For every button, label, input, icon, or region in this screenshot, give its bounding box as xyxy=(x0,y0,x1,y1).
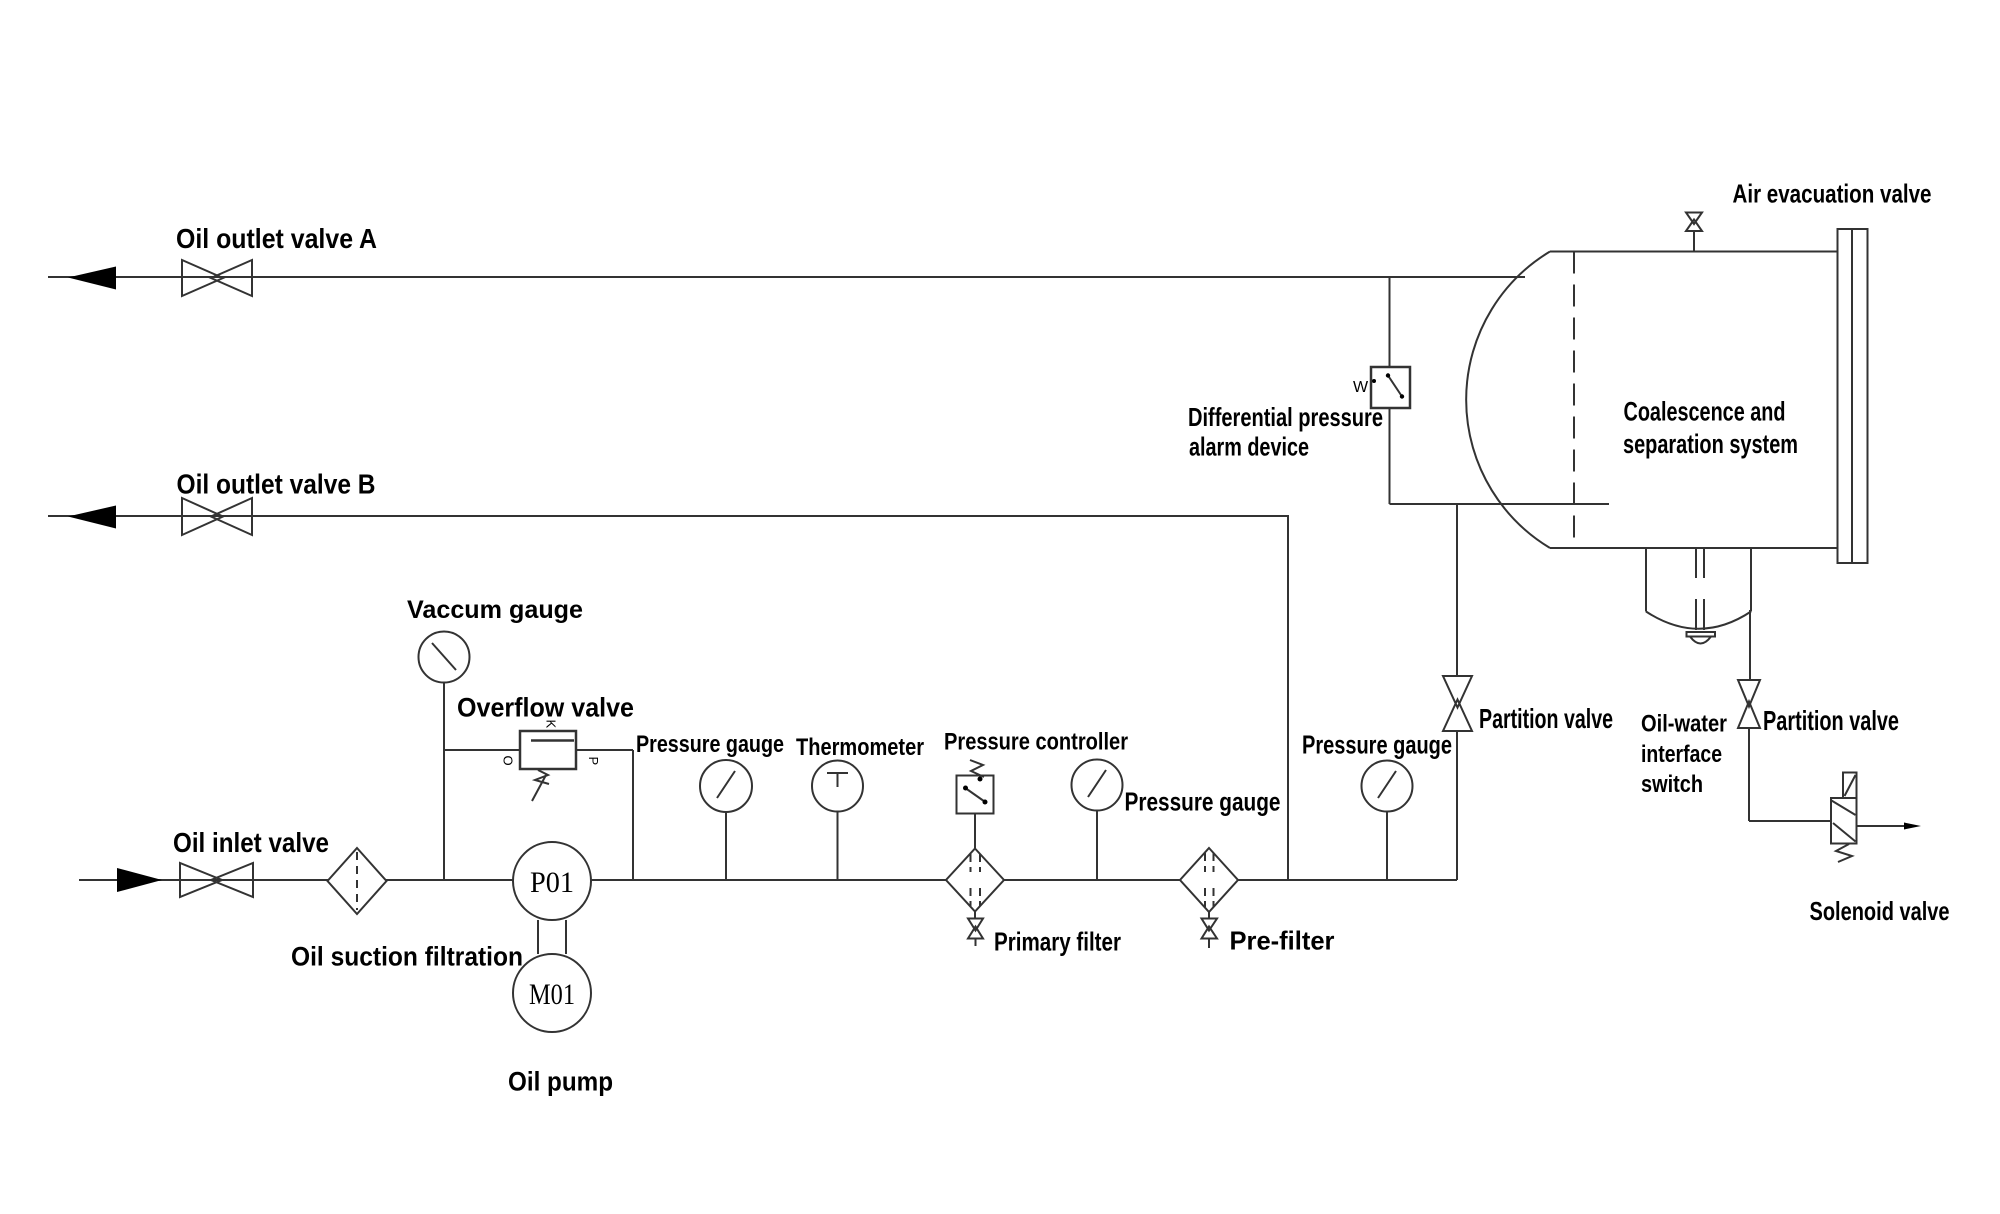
valve: oil outlet valve B xyxy=(182,498,252,535)
valve: overflow valve xyxy=(501,720,602,802)
svg-text:O: O xyxy=(501,756,516,766)
instrument: differential pressure alarm device xyxy=(1353,367,1410,408)
flow arrow A xyxy=(68,267,116,290)
coupling between pump and motor xyxy=(538,920,566,954)
vessel flange plate xyxy=(1838,229,1868,563)
wire: solenoid outlet xyxy=(1857,825,1907,827)
svg-text:Oil-water: Oil-water xyxy=(1641,711,1727,738)
vessel sump xyxy=(1646,548,1751,629)
wire: pressure gauge 2 stem xyxy=(1096,810,1098,880)
wire: oil outlet B pipe xyxy=(48,516,1288,880)
wire: pressure gauge 3 stem xyxy=(1386,812,1388,880)
svg-text:P: P xyxy=(586,757,601,766)
wire: alarm device riser xyxy=(1389,277,1391,504)
wire: oil outlet A pipe xyxy=(48,276,1525,278)
wire: thermometer stem xyxy=(837,812,839,880)
filter: oil suction filtration xyxy=(328,848,387,914)
valve: solenoid valve xyxy=(1831,773,1857,863)
valve: oil outlet valve A xyxy=(182,260,252,296)
svg-text:interface: interface xyxy=(1641,741,1722,768)
gauge: vacuum gauge xyxy=(419,632,470,683)
svg-text:Oil pump: Oil pump xyxy=(508,1067,613,1097)
wire: alarm device lower header xyxy=(1390,503,1610,505)
pump P01 xyxy=(513,842,591,920)
svg-text:Coalescence and: Coalescence and xyxy=(1624,397,1786,427)
svg-text:Oil inlet valve: Oil inlet valve xyxy=(173,827,329,858)
svg-text:Pre-filter: Pre-filter xyxy=(1230,926,1335,956)
svg-text:switch: switch xyxy=(1641,771,1703,798)
wire: water drain line xyxy=(1749,610,1831,821)
valve: primary filter drain xyxy=(968,912,983,947)
flow arrow B xyxy=(68,506,116,529)
svg-text:Partition valve: Partition valve xyxy=(1763,705,1899,736)
svg-text:W: W xyxy=(1353,379,1369,396)
valve: oil inlet valve xyxy=(180,863,253,897)
svg-text:Pressure gauge: Pressure gauge xyxy=(1302,730,1452,760)
svg-text:separation system: separation system xyxy=(1623,429,1798,459)
svg-text:Overflow valve: Overflow valve xyxy=(457,693,634,723)
svg-text:Solenoid valve: Solenoid valve xyxy=(1810,896,1950,926)
valve: air evacuation valve xyxy=(1686,213,1702,252)
valve: pre-filter drain xyxy=(1202,912,1218,948)
filter: pre-filter xyxy=(1180,848,1238,912)
svg-text:Pressure controller: Pressure controller xyxy=(944,729,1128,756)
filter: primary filter xyxy=(946,849,1004,912)
wire: riser to partition valve 1 xyxy=(1456,504,1458,880)
svg-text:Oil outlet valve A: Oil outlet valve A xyxy=(176,223,377,254)
svg-text:Oil outlet valve B: Oil outlet valve B xyxy=(177,469,376,500)
svg-text:Air evacuation valve: Air evacuation valve xyxy=(1733,179,1932,209)
wire: pressure gauge 1 stem xyxy=(725,812,727,880)
instrument: pressure controller xyxy=(957,760,994,814)
wire: vacuum gauge stem xyxy=(443,682,445,880)
sump float xyxy=(1687,632,1716,644)
sump inner pipe xyxy=(1696,549,1704,630)
svg-text:Pressure gauge: Pressure gauge xyxy=(636,731,784,758)
svg-text:Vaccum gauge: Vaccum gauge xyxy=(407,596,583,624)
vessel: coalescence and separation system shell xyxy=(1466,252,1838,549)
valve: partition valve 1 xyxy=(1443,676,1472,731)
wire: pressure controller stem xyxy=(974,813,976,848)
svg-text:Pressure gauge: Pressure gauge xyxy=(1125,787,1281,817)
svg-text:Differential pressure: Differential pressure xyxy=(1188,402,1383,432)
svg-text:Partition valve: Partition valve xyxy=(1479,703,1613,734)
svg-text:Thermometer: Thermometer xyxy=(796,734,924,761)
gauge: pressure gauge 2 xyxy=(1072,760,1123,811)
valve: partition valve 2 xyxy=(1738,680,1760,728)
flow arrow inlet xyxy=(117,868,162,892)
gauge: pressure gauge 3 xyxy=(1362,761,1413,812)
flow arrow solenoid outlet xyxy=(1904,823,1921,830)
svg-text:P01: P01 xyxy=(530,866,574,899)
motor M01 xyxy=(513,954,591,1032)
svg-text:Oil suction filtration: Oil suction filtration xyxy=(291,942,523,972)
svg-text:Primary filter: Primary filter xyxy=(994,927,1121,957)
svg-text:alarm device: alarm device xyxy=(1189,432,1309,462)
wire: main inlet/discharge pipe xyxy=(79,879,1457,881)
gauge: pressure gauge 1 xyxy=(700,760,752,812)
wire: overflow valve branch xyxy=(444,750,633,880)
gauge: thermometer xyxy=(812,761,863,812)
svg-text:M01: M01 xyxy=(529,978,575,1011)
